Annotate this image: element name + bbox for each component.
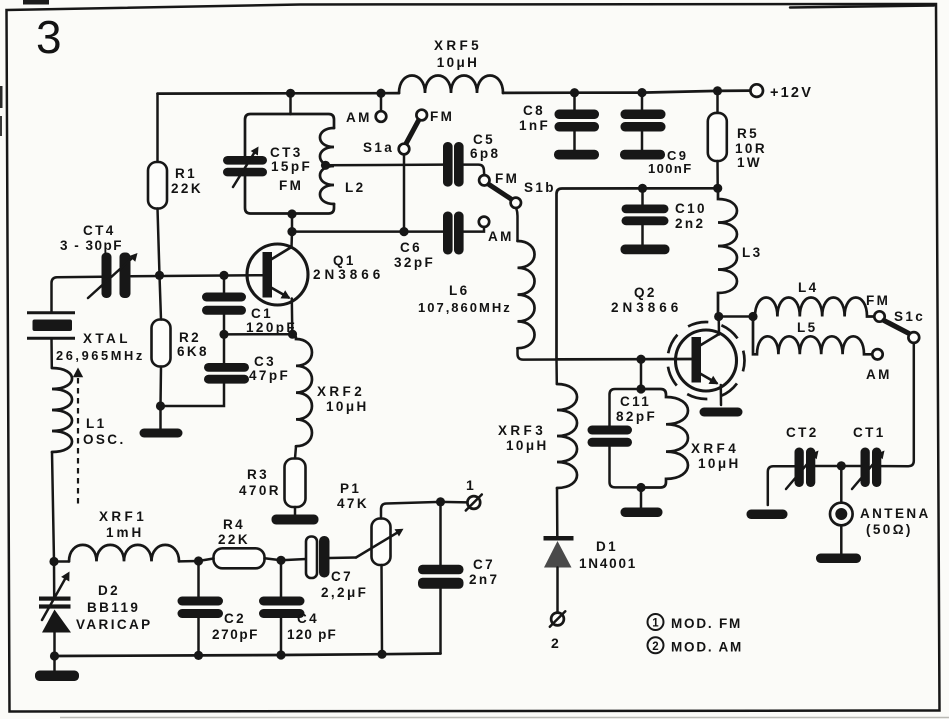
transistor Q2	[676, 330, 737, 391]
trimmer CT2	[795, 448, 804, 488]
wire C5 to S1b FM	[464, 165, 485, 175]
potentiometer P1	[372, 519, 391, 566]
wire C1 to emitter line	[223, 315, 226, 335]
wire base node to C11 node	[640, 359, 643, 389]
resistor R1	[148, 162, 167, 209]
inductor XRF1	[54, 560, 69, 563]
wire S1b AM to C6	[464, 227, 485, 232]
terminal FM S1c	[874, 311, 884, 321]
node C4-rail	[276, 650, 285, 659]
node rail-tank	[286, 89, 295, 98]
svg-text:XRF2: XRF2	[317, 384, 365, 399]
wire to terminal 1	[441, 501, 468, 504]
wire XTAL to L1	[50, 338, 53, 368]
wire P1 top	[381, 502, 441, 519]
wire L1 to XRF1 node	[52, 452, 54, 562]
svg-text:15pF: 15pF	[271, 159, 312, 174]
ground CT2	[747, 510, 788, 520]
svg-text:CT1: CT1	[853, 425, 886, 440]
inductor L1	[52, 368, 72, 452]
capacitor C4	[259, 597, 305, 606]
wire Q2 collector	[717, 317, 720, 335]
crystal XTAL	[27, 311, 75, 314]
svg-text:1W: 1W	[737, 155, 762, 170]
node rail-S1a-AM	[376, 89, 385, 98]
svg-text:6K8: 6K8	[177, 344, 209, 359]
node D2-gnd	[50, 651, 59, 660]
capacitor C6	[443, 212, 453, 255]
svg-text:2N3866: 2N3866	[611, 300, 682, 315]
node rail2-R5	[713, 184, 722, 193]
svg-text:C7: C7	[331, 569, 353, 584]
terminal +12V	[750, 84, 763, 97]
wire L3 to L4 node	[719, 315, 753, 318]
wire collector node to C6	[292, 230, 443, 233]
node antenna tap	[837, 461, 846, 470]
wire Q1 collector	[290, 232, 293, 248]
wire L6 to base line	[518, 348, 692, 359]
inductor L3	[718, 188, 737, 316]
svg-text:10μH: 10μH	[698, 456, 741, 471]
inductor XRF3	[557, 384, 577, 488]
terminal 2	[551, 613, 564, 626]
terminal 1	[467, 496, 480, 509]
ground Q2	[700, 408, 743, 417]
svg-text:XTAL: XTAL	[83, 331, 131, 346]
node emitter-C1	[219, 330, 228, 339]
svg-text:P1: P1	[340, 481, 361, 496]
inductor L5	[753, 317, 872, 355]
svg-text:CT3: CT3	[270, 145, 303, 160]
switch S1a lever	[405, 121, 419, 146]
svg-text:10μH: 10μH	[326, 399, 369, 414]
svg-text:C7: C7	[473, 557, 495, 572]
diode D1	[544, 536, 574, 541]
svg-text:3: 3	[36, 11, 62, 63]
switch S1c common	[908, 332, 919, 343]
svg-text:FM: FM	[495, 171, 519, 186]
node C2-XRF1	[194, 556, 203, 565]
svg-text:6p8: 6p8	[470, 146, 500, 161]
capacitor C1	[202, 293, 246, 302]
svg-text:CT2: CT2	[786, 425, 819, 440]
svg-text:ANTENA: ANTENA	[860, 506, 931, 521]
L1 core dashed arrow	[77, 378, 79, 505]
wire D1 to terminal 2	[556, 568, 559, 613]
svg-text:47K: 47K	[337, 496, 369, 511]
wire +12V rail	[158, 92, 400, 95]
wire C2 top	[197, 561, 200, 597]
svg-text:FM: FM	[866, 293, 890, 308]
svg-text:MOD. FM: MOD. FM	[671, 616, 742, 631]
wire L2 tap to C5	[326, 163, 444, 166]
svg-text:10R: 10R	[735, 141, 767, 156]
wire C2 bottom	[197, 618, 200, 655]
ground R2/C3	[140, 429, 183, 438]
svg-text:10μH: 10μH	[437, 55, 480, 70]
svg-text:2: 2	[652, 641, 658, 653]
svg-text:C5: C5	[473, 132, 495, 147]
svg-text:1: 1	[466, 477, 476, 493]
wire C4 bottom	[280, 618, 283, 655]
svg-text:MOD. AM: MOD. AM	[671, 639, 743, 654]
svg-text:S1b: S1b	[524, 180, 556, 195]
svg-text:2,2μF: 2,2μF	[321, 585, 368, 600]
node emitter-XRF2	[288, 330, 297, 339]
svg-text:OSC.: OSC.	[83, 432, 126, 447]
svg-text:L1: L1	[86, 416, 107, 431]
svg-text:1N4001: 1N4001	[579, 556, 637, 571]
wire S1c to CT1	[881, 343, 914, 466]
svg-text:10μH: 10μH	[506, 438, 549, 453]
svg-text:82pF: 82pF	[616, 409, 657, 424]
capacitor C10	[641, 188, 644, 204]
wire C4 top	[280, 560, 283, 596]
svg-text:L4: L4	[798, 280, 819, 295]
svg-text:(50Ω): (50Ω)	[866, 522, 913, 537]
wire bottom rail	[55, 654, 441, 657]
wire D2 to rail	[53, 633, 56, 657]
inductor XRF5	[399, 76, 503, 93]
svg-text:L6: L6	[449, 283, 470, 298]
wire CT2 to ground	[768, 466, 795, 505]
svg-text:C2: C2	[224, 611, 246, 626]
wire C7 out	[330, 556, 357, 559]
wire emitter line	[224, 333, 292, 336]
svg-text:2N3866: 2N3866	[313, 267, 384, 282]
svg-text:47pF: 47pF	[249, 368, 290, 383]
wire XRF2 to R3	[295, 446, 296, 458]
legend mod am	[648, 637, 664, 653]
wire C11 gnd stub	[640, 488, 643, 509]
resistor R2	[152, 320, 171, 367]
svg-text:2n7: 2n7	[469, 572, 499, 587]
wire gnd stub D2	[53, 656, 56, 672]
svg-text:L5: L5	[797, 320, 818, 335]
svg-text:AM: AM	[866, 367, 892, 382]
node L4-L5	[748, 312, 757, 321]
node S1a-C6	[399, 227, 408, 236]
scan edge marks	[0, 86, 3, 108]
svg-text:R2: R2	[179, 330, 201, 345]
wire XRF3 stub	[555, 359, 558, 384]
svg-text:C11: C11	[620, 394, 651, 409]
wire XRF1 to R4	[199, 559, 214, 562]
wire R1 to base line	[158, 209, 160, 276]
svg-text:XRF3: XRF3	[498, 423, 546, 438]
capacitor C8	[573, 93, 576, 110]
svg-text:100nF: 100nF	[648, 161, 693, 176]
svg-text:107,860MHz: 107,860MHz	[418, 300, 512, 315]
capacitor C2	[178, 597, 224, 606]
wire P1 bottom	[380, 565, 383, 654]
ground D2	[35, 671, 79, 682]
wire C7 in	[281, 559, 306, 560]
switch S1c lever	[884, 321, 909, 334]
wire R5 to rail2	[716, 161, 719, 188]
wire base line	[52, 277, 102, 312]
svg-text:L2: L2	[345, 180, 366, 195]
capacitor C7 electrolytic	[306, 537, 317, 579]
svg-text:FM: FM	[279, 178, 303, 193]
trimmer CT4 plates	[102, 253, 112, 299]
ground antenna	[816, 554, 861, 564]
capacitor C11	[610, 389, 642, 426]
svg-text:C4: C4	[297, 611, 319, 626]
wire rail to R1	[156, 94, 159, 162]
terminal AM S1a	[376, 111, 387, 122]
capacitor C3	[204, 363, 249, 372]
node L3-collector	[714, 312, 723, 321]
svg-text:1: 1	[652, 618, 659, 630]
capacitor C5	[443, 142, 453, 187]
wire Q1 emitter	[291, 299, 294, 335]
svg-text:L3: L3	[742, 245, 763, 260]
svg-text:26,965MHz: 26,965MHz	[56, 348, 145, 363]
node C11-XRF4 top	[636, 384, 645, 393]
svg-text:C1: C1	[251, 306, 273, 321]
svg-text:470R: 470R	[239, 483, 281, 498]
svg-text:2: 2	[551, 635, 561, 651]
svg-text:BB119: BB119	[87, 600, 140, 615]
wire gnd stub R2	[159, 406, 162, 429]
capacitor C7b 2n7	[418, 565, 464, 575]
varicap D2	[53, 562, 56, 597]
wire Q2 emitter	[720, 385, 723, 405]
wire CT2-CT1	[815, 465, 860, 468]
transistor Q1	[247, 244, 308, 305]
wire XRF1 node	[49, 557, 58, 566]
wire base to Q2	[557, 358, 692, 361]
svg-text:D1: D1	[596, 539, 618, 554]
svg-text:VARICAP: VARICAP	[76, 617, 153, 632]
terminal FM S1a	[416, 110, 427, 121]
capacitor C9	[641, 93, 644, 110]
node L2 tap	[321, 161, 330, 170]
node base-C11	[636, 355, 645, 364]
inductor XRF4	[641, 389, 688, 488]
svg-text:2n2: 2n2	[675, 216, 705, 231]
svg-text:R5: R5	[737, 126, 759, 141]
tank circuit frame with coil L2	[245, 114, 291, 156]
node R4-C4	[276, 556, 285, 565]
wire C1 node to C3	[223, 334, 226, 363]
svg-text:FM: FM	[430, 109, 454, 124]
switch S1b lever	[489, 185, 511, 200]
wire S1a to C6 line	[403, 154, 406, 231]
ground C9	[620, 150, 665, 160]
svg-text:XRF5: XRF5	[434, 38, 482, 53]
wire base to C1	[223, 275, 226, 292]
node rail-R5	[713, 86, 722, 95]
node collector-C6	[287, 227, 296, 236]
svg-text:S1c: S1c	[894, 309, 925, 324]
svg-text:C10: C10	[675, 201, 707, 216]
wire C7b bottom	[439, 589, 442, 654]
node rail-C9	[637, 88, 646, 97]
svg-text:3 - 30pF: 3 - 30pF	[60, 238, 123, 253]
wire R3 to ground	[294, 507, 297, 515]
node P1-C7b	[436, 497, 445, 506]
wire R4 to C7	[265, 558, 282, 560]
node C11-gnd	[636, 483, 645, 492]
wire XRF3 to D1	[556, 488, 559, 536]
svg-text:CT4: CT4	[83, 223, 116, 238]
svg-text:AM: AM	[488, 229, 514, 244]
svg-text:+12V: +12V	[770, 85, 813, 101]
svg-text:R3: R3	[247, 467, 269, 482]
antenna connector	[840, 466, 843, 503]
node P1-rail	[377, 650, 386, 659]
wire tank to collector node	[291, 214, 294, 232]
terminal AM S1b	[479, 217, 489, 227]
trimmer CT3 plates	[223, 156, 267, 165]
svg-text:XRF1: XRF1	[99, 509, 147, 524]
resistor R3	[285, 459, 306, 508]
wire R2 bottom	[159, 367, 162, 407]
svg-text:1mH: 1mH	[106, 525, 144, 540]
switch S1b common	[511, 198, 521, 208]
wire C3 to ground line	[161, 384, 225, 406]
ground C8	[554, 150, 599, 160]
terminal AM S1c	[872, 349, 882, 359]
svg-text:R4: R4	[223, 517, 245, 532]
trimmer CT1	[861, 448, 870, 488]
svg-text:22K: 22K	[171, 181, 203, 196]
wire rail2	[557, 188, 718, 359]
wire rail to tank	[289, 93, 292, 114]
svg-text:XRF4: XRF4	[691, 441, 739, 456]
svg-text:C6: C6	[400, 240, 422, 255]
ground C10	[621, 245, 670, 255]
svg-text:Q1: Q1	[333, 253, 356, 268]
svg-text:C8: C8	[523, 103, 545, 118]
svg-text:32pF: 32pF	[394, 255, 435, 270]
resistor R5	[716, 91, 719, 113]
svg-text:Q2: Q2	[634, 285, 657, 300]
inductor L6	[518, 241, 535, 348]
node rail-C8	[570, 88, 579, 97]
switch S1a common	[399, 144, 410, 155]
svg-text:120 pF: 120 pF	[287, 627, 337, 642]
node base-R1	[155, 271, 164, 280]
resistor R4	[214, 548, 265, 568]
wire rail to S1a AM terminal	[380, 93, 383, 111]
svg-text:AM: AM	[346, 110, 372, 125]
node rail2-C10	[638, 184, 647, 193]
svg-text:D2: D2	[98, 583, 120, 598]
svg-text:22K: 22K	[218, 532, 250, 547]
svg-text:S1a: S1a	[363, 140, 394, 155]
node tank bottom	[287, 209, 296, 218]
node C2-rail	[194, 651, 203, 660]
node R2-gnd	[156, 401, 165, 410]
ground C11	[621, 508, 663, 518]
wire C7b top	[439, 502, 442, 565]
inductor L4	[753, 298, 874, 317]
wire R2 top	[160, 275, 162, 319]
legend mod fm	[648, 614, 664, 630]
svg-text:270pF: 270pF	[212, 627, 259, 642]
svg-text:C3: C3	[254, 354, 276, 369]
wire S1b to L6	[516, 208, 517, 241]
inductor XRF2	[293, 334, 312, 446]
svg-text:R1: R1	[175, 166, 197, 181]
ground R3	[272, 515, 319, 525]
svg-text:1nF: 1nF	[519, 118, 550, 133]
node base-C1	[219, 271, 228, 280]
terminal FM S1b	[479, 175, 489, 185]
